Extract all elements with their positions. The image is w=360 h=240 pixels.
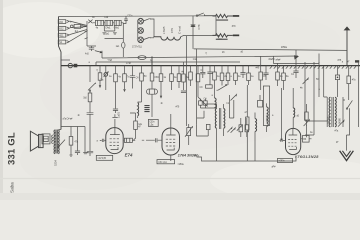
dial lamp LA3: [138, 37, 144, 43]
capacitor C11: [207, 66, 212, 85]
bus: main chassis rail D: [61, 65, 360, 67]
coil L5: [214, 85, 216, 98]
switch S4: [216, 85, 226, 90]
coil form box: [263, 86, 269, 126]
label: V2 socket box: [157, 160, 175, 164]
resistor R23: [348, 66, 350, 76]
wire: V1 grid left: [100, 139, 106, 142]
node: arrow tap on rail B: [95, 51, 102, 53]
IF transformer T2: [218, 108, 220, 129]
resistor R13: [190, 66, 192, 72]
svg-text:C50n: C50n: [127, 14, 133, 17]
wire: stepped drop: [274, 56, 278, 72]
svg-text:1748: 1748: [126, 62, 132, 65]
wire: transformer links: [305, 62, 345, 135]
small ground marks: [70, 150, 88, 156]
transformer T1: [55, 130, 57, 154]
resistor R17: [227, 66, 229, 73]
trimmer P1: [105, 66, 107, 73]
trimmer arrow: [338, 120, 344, 126]
resistor R8: [151, 72, 153, 74]
svg-text:a4a#: a4a#: [276, 58, 282, 61]
resistor R7: [141, 66, 143, 73]
svg-text:4S1: 4S1: [59, 33, 64, 37]
resistor R18: [235, 66, 237, 73]
resistor R15: [214, 66, 216, 72]
fuse oval on rail B: [138, 56, 146, 60]
resistor R2 (zigzag): [213, 34, 229, 37]
label: V3 socket box: [278, 158, 293, 162]
coupler K3 right of V3: [303, 136, 310, 143]
switch S3: [88, 66, 95, 91]
capacitor C18 pair above: [199, 101, 203, 105]
resistor R28 (long drop): [246, 85, 248, 117]
electrolytic C6: [191, 16, 196, 49]
paper crease: [0, 178, 360, 180]
wire: grid lead diagonal: [198, 97, 208, 107]
coupler K2: [124, 138, 132, 142]
svg-text:5234: 5234: [53, 160, 57, 166]
wire: cathode bus: [197, 157, 296, 161]
antenna terminal labels: [58, 20, 66, 24]
resistor R1 (zigzag): [213, 14, 229, 17]
svg-text:=4V 1,1A: =4V 1,1A: [158, 161, 167, 164]
resistor R20: [260, 56, 262, 72]
wire: V1 top cap: [112, 114, 117, 127]
resistor R25: [135, 113, 137, 121]
svg-text:C4a1: C4a1: [105, 26, 111, 29]
trimmer above: [304, 120, 310, 137]
wire: cluster verticals: [197, 95, 234, 118]
wire: drop from padder network: [122, 23, 124, 57]
capacitor C7 to ground: [87, 113, 94, 156]
capacitor C19 box: [258, 100, 263, 107]
speaker driver box: [42, 134, 50, 144]
svg-text:C78: C78: [197, 24, 201, 29]
label: V1 socket box: [96, 155, 112, 160]
svg-text:L7425: L7425: [162, 26, 166, 34]
svg-text:C79: C79: [170, 28, 174, 33]
trimmer block C2: [105, 20, 113, 25]
resistor R29: [305, 112, 309, 120]
svg-text:C-mod: C-mod: [177, 26, 181, 34]
wire: AVC rail: [194, 49, 347, 51]
resistor R27: [206, 124, 210, 129]
svg-text:=a3V: =a3V: [194, 154, 200, 157]
wire: right edge vertical: [358, 63, 360, 127]
svg-text:1737+7(L): 1737+7(L): [132, 45, 142, 48]
coupler K1: [147, 89, 158, 94]
resistor R6: [124, 66, 126, 74]
capacitor C14: [293, 56, 298, 78]
wire: links between trimmer blocks: [93, 22, 123, 24]
wire: V2 top lead: [170, 114, 172, 128]
dial lamp LA1: [138, 18, 144, 24]
svg-text:=150a: =150a: [178, 163, 185, 166]
wire: R1/R2 feed vertical: [215, 16, 217, 36]
switch contacts S1a: [88, 20, 92, 24]
wire: left stub: [61, 59, 70, 61]
resistor R16: [221, 66, 223, 73]
svg-text:#J50a: #J50a: [281, 46, 288, 49]
coil L4: [267, 107, 269, 126]
wire: lamp feed vertical: [137, 21, 139, 40]
resistor R19: [248, 66, 250, 73]
tube V1: [106, 128, 123, 154]
resistor boxes mid: [239, 125, 243, 132]
wire: terminal converge lines: [70, 21, 88, 41]
capacitor C50n at top: [123, 16, 128, 23]
trimmer block C1: [95, 20, 103, 25]
coil L2: [138, 101, 142, 103]
svg-text:#4a50: #4a50: [269, 58, 276, 61]
svg-text:=4V 0,65: =4V 0,65: [97, 157, 106, 160]
choke block (striped): [144, 106, 149, 112]
capacitor C10 (horizontal): [206, 85, 213, 88]
wire: thick drop at 152: [151, 56, 153, 73]
resistor R4: [99, 66, 101, 73]
tube V3: [286, 128, 301, 154]
fuse F1 in antenna lead: [71, 25, 74, 28]
trimmer arrows: [237, 126, 242, 131]
node: B+ arrow terminal: [346, 30, 348, 66]
wire: coil output to resistor row: [181, 35, 216, 36]
wire: coil line end arrow: [216, 35, 219, 37]
capacitor C16: [75, 127, 80, 156]
svg-text:16504: 16504: [326, 116, 330, 124]
wire: drop 305: [304, 62, 306, 121]
svg-text:E74: E74: [125, 152, 133, 157]
svg-text:Saba: Saba: [10, 182, 15, 193]
capacitor C8: [130, 66, 135, 89]
resistor R14: [197, 66, 199, 74]
wire: rail C: [96, 54, 319, 66]
ground hatching right: [270, 66, 272, 68]
capacitor C12: [240, 66, 245, 78]
choke L6: [293, 108, 295, 117]
wire: top rail: [59, 15, 216, 18]
speaker LS: [30, 131, 38, 151]
wire: verticals right of V2: [186, 36, 196, 126]
fuse on rail D: [68, 63, 72, 67]
resistor R22: [283, 66, 285, 73]
switch at lamps: [143, 18, 150, 39]
svg-text:6S2: 6S2: [59, 27, 64, 31]
wire: drop 324: [323, 66, 325, 97]
padder C3: [114, 20, 121, 25]
wire: V3 leads: [280, 88, 294, 142]
switch S5: [347, 100, 353, 135]
resistor R21: [277, 71, 279, 73]
wire: drops below trimmers: [102, 26, 116, 35]
ground symbol: [346, 135, 348, 151]
switch S2 on top rail: [196, 15, 198, 17]
node: right rail terminal: [355, 60, 359, 62]
resistor R3: [89, 91, 91, 93]
capacitor C17 at V2 grid: [142, 138, 162, 142]
fuse oval vertical: [122, 42, 125, 48]
switch S6: [59, 140, 65, 147]
resistor R9: [160, 66, 162, 74]
tube V2: [162, 128, 180, 155]
svg-text:Y76GL3N28: Y76GL3N28: [295, 155, 320, 159]
svg-text:a7a C# a#: a7a C# a#: [63, 118, 74, 121]
trimmer R26: [187, 128, 191, 136]
coil L1 winding humps: [154, 36, 181, 40]
resistor R12: [183, 62, 185, 74]
svg-text:W2: W2: [59, 20, 63, 24]
node: antenna junction vertical: [86, 21, 88, 46]
capacitor C15: [337, 66, 339, 75]
title: Saba 331 GL (rotated): [7, 132, 18, 193]
resistor R10: [171, 66, 173, 74]
wire: rail B (screen supply): [102, 51, 298, 58]
trimmer arrow: [231, 95, 237, 101]
wire: left vertical spine: [59, 17, 62, 130]
wire: spine to transformer: [58, 127, 85, 130]
capacitor C9: [200, 66, 205, 78]
wire: drop 314: [313, 62, 315, 135]
capacitor C5 to ground: [87, 46, 96, 51]
resistor R24: [70, 127, 72, 137]
resistor R11: [178, 66, 180, 74]
trimmer arrows T2: [227, 127, 235, 132]
dial lamp LA2: [138, 28, 144, 34]
capacitor C13: [263, 66, 268, 80]
label: C50n box: [148, 119, 158, 126]
driver coil marks: [52, 135, 53, 144]
resistor R5: [115, 66, 117, 74]
transformer T3: [331, 97, 333, 127]
coil L3: [255, 119, 257, 132]
svg-text:331 GL: 331 GL: [7, 132, 18, 165]
